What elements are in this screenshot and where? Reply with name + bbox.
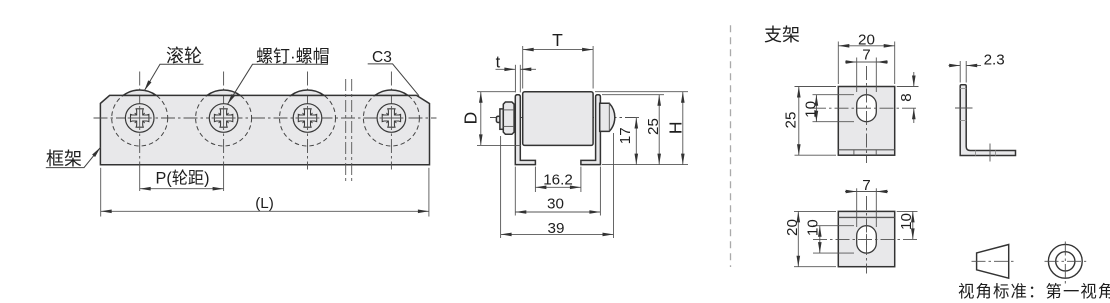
- roller 2 top arc: [207, 90, 240, 95]
- bracket front vertical centerline: [866, 66, 868, 163]
- 8 dimension: [913, 72, 915, 87]
- svg-text:20: 20: [784, 219, 801, 236]
- D dimension line: [480, 92, 482, 146]
- roller 2 phillips: [212, 106, 236, 130]
- 10 extension lines left (bottom): [813, 225, 854, 227]
- 25 dimension: [658, 95, 660, 165]
- 10 dimension right (bottom): [912, 211, 914, 239]
- label C3 underline and leader: [368, 64, 419, 96]
- label frame arrow: [92, 147, 100, 157]
- 25 dimension (front): [798, 87, 800, 156]
- 39 dimension: [501, 233, 614, 235]
- svg-text:16.2: 16.2: [543, 171, 573, 188]
- 16.2 dimension: [535, 186, 581, 188]
- circle crosshair vertical: [1064, 242, 1066, 284]
- first angle projection cone: [977, 245, 1009, 279]
- bracket bottom slot: [857, 226, 877, 253]
- L profile hole centerline tick vertical leg: [955, 107, 973, 109]
- dimension P line: [140, 188, 224, 190]
- roller 3 phillips: [296, 106, 320, 130]
- 30 dimension: [515, 211, 600, 213]
- bracket bottom vertical centerline: [866, 196, 868, 274]
- roller 2 dashed circle: [196, 90, 252, 146]
- label roller arrow: [144, 80, 151, 90]
- break line left: [345, 79, 347, 182]
- 2.3 extension lines: [959, 61, 961, 83]
- svg-text:视角标准：第一视角: 视角标准：第一视角: [958, 283, 1110, 301]
- roller 1 top arc: [123, 90, 156, 95]
- T dimension line: [523, 49, 593, 51]
- roller 2 screw head: [209, 104, 238, 133]
- break line right: [351, 79, 353, 182]
- 7 dimension (bottom): [845, 191, 888, 193]
- 39 extension lines: [500, 136, 502, 238]
- svg-text:D: D: [461, 112, 481, 125]
- bracket bottom body: [838, 211, 894, 266]
- dimension L extension lines: [100, 168, 102, 217]
- bracket bottom slot center cross: [861, 234, 872, 245]
- svg-text:H: H: [666, 121, 686, 134]
- svg-text:17: 17: [617, 127, 634, 144]
- label screw-nut underline and leader: [228, 64, 329, 104]
- 20 dimension: [838, 45, 894, 47]
- D text: [461, 112, 481, 125]
- T extension lines: [522, 46, 524, 89]
- roller 1 centerline: [139, 72, 141, 168]
- L profile slot lines horizontal leg: [975, 151, 977, 156]
- 10 dimension left (bottom): [819, 226, 821, 253]
- bracket front body: [838, 87, 894, 156]
- D extension lines: [477, 91, 515, 93]
- label screw-nut arrow: [228, 94, 235, 104]
- bracket front fold ticks: [853, 150, 855, 155]
- nut: [503, 102, 514, 134]
- 25 extension lines (front): [795, 86, 837, 88]
- roller 3 screw head: [293, 104, 322, 133]
- roller 3 top arc: [291, 90, 324, 95]
- L profile side view: [960, 85, 1015, 156]
- 10 extension lines (front): [813, 94, 855, 96]
- 17 dimension: [635, 118, 637, 165]
- svg-text:t: t: [496, 54, 501, 72]
- svg-text:螺钉·螺帽: 螺钉·螺帽: [256, 47, 330, 66]
- svg-text:2.3: 2.3: [984, 52, 1005, 69]
- svg-text:10: 10: [803, 101, 820, 118]
- svg-text:滚轮: 滚轮: [166, 46, 202, 66]
- t extension lines: [514, 65, 516, 93]
- L profile hole centerline tick horizontal leg: [989, 144, 991, 162]
- 7 dimension: [845, 61, 888, 63]
- bracket bottom fold line: [838, 216, 894, 218]
- roller 1 phillips: [128, 106, 152, 130]
- svg-text:25: 25: [645, 118, 662, 135]
- circle crosshair horizontal: [1045, 260, 1087, 262]
- svg-text:25: 25: [783, 112, 800, 129]
- roller 2 centerline: [223, 72, 225, 168]
- 2.3 dimension: [949, 65, 961, 67]
- horizontal centerline: [94, 117, 437, 119]
- H dimension: [682, 92, 684, 165]
- svg-text:T: T: [552, 30, 563, 50]
- 7 extension lines: [856, 58, 858, 93]
- svg-text:10: 10: [898, 213, 915, 230]
- svg-text:8: 8: [898, 93, 915, 101]
- svg-text:P(轮距): P(轮距): [156, 169, 210, 187]
- svg-text:框架: 框架: [46, 149, 82, 169]
- section roller: [523, 92, 593, 146]
- svg-text:支架: 支架: [764, 25, 800, 45]
- 20 extension lines: [837, 42, 839, 85]
- svg-text:(L): (L): [255, 195, 274, 212]
- dimension L line: [101, 210, 429, 212]
- 20 extension lines (bottom): [794, 210, 836, 212]
- 7 extension lines (bottom): [856, 188, 858, 227]
- 10 dimension (front): [815, 95, 817, 122]
- bracket bottom horizontal centerline: [813, 238, 919, 240]
- projection circles: [1048, 244, 1082, 278]
- roller 4 centerline: [390, 72, 392, 170]
- svg-text:30: 30: [547, 196, 564, 213]
- section axle centerline: [490, 117, 641, 119]
- 20 dimension (bottom): [797, 211, 799, 266]
- cone centerline: [972, 260, 1014, 262]
- bracket front slot: [857, 95, 877, 122]
- washer left: [500, 109, 503, 129]
- roller 3 centerline: [307, 72, 309, 170]
- roller 4 screw head: [377, 104, 406, 133]
- t dimension: [496, 68, 516, 70]
- roller 1 screw head: [125, 104, 154, 133]
- screw tip left: [496, 116, 500, 122]
- frame: [100, 95, 429, 164]
- separator dashed line: [730, 25, 732, 267]
- 16.2 extension lines: [534, 167, 536, 192]
- 30 extension lines: [514, 167, 516, 216]
- screw head right: [600, 103, 615, 131]
- 10 extension line right (bottom): [897, 210, 918, 212]
- svg-text:7: 7: [862, 46, 870, 63]
- roller 3 dashed circle: [280, 90, 336, 146]
- svg-text:39: 39: [548, 220, 565, 237]
- label roller underline and leader: [144, 64, 203, 91]
- roller 4 top arc: [375, 90, 408, 95]
- section right wall: [581, 95, 601, 165]
- 8 extension line: [897, 86, 919, 88]
- section left wall: [515, 95, 535, 165]
- roller 4 dashed circle: [363, 90, 419, 146]
- roller 4 phillips: [379, 106, 403, 130]
- roller 1 dashed circle: [112, 90, 168, 146]
- L profile slot lines vertical leg: [960, 88, 966, 90]
- svg-text:7: 7: [862, 177, 870, 194]
- bracket front fold line: [838, 149, 894, 151]
- right extension lines: [595, 91, 688, 93]
- bracket front horizontal centerline: [812, 107, 919, 109]
- svg-text:10: 10: [804, 219, 821, 236]
- label frame underline and leader: [46, 147, 101, 167]
